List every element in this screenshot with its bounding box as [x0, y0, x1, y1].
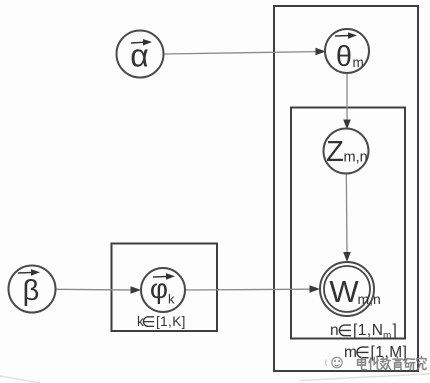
svg-text:n: n [330, 322, 339, 339]
wire z to w [345, 174, 348, 254]
plate M (outer document plate) [274, 6, 418, 371]
svg-text:W: W [329, 274, 359, 309]
svg-text:θ: θ [336, 41, 352, 73]
label n in [1,N_m] [330, 322, 397, 342]
wire theta to z [346, 73, 348, 121]
node z_mn [324, 129, 369, 174]
svg-text:m: m [383, 331, 391, 342]
node w_mn (observed, double circle) [320, 262, 381, 316]
svg-text:m,n: m,n [358, 291, 381, 307]
wire phi to w [185, 288, 312, 291]
svg-text:m: m [353, 55, 364, 70]
node beta [9, 266, 56, 313]
svg-text:[1,N: [1,N [353, 322, 383, 339]
node alpha [117, 31, 164, 78]
svg-text:]: ] [393, 322, 397, 339]
label m in [1,M] [344, 344, 407, 361]
svg-text:φ: φ [150, 273, 168, 304]
plate N (inner word plate) [291, 108, 405, 339]
scan shadow bottom-right [300, 374, 430, 381]
scan shadow bottom-left [0, 376, 40, 383]
node theta_m [325, 29, 369, 73]
node phi_k [141, 268, 185, 312]
arrowhead into w [343, 252, 351, 262]
arrowhead into phi [131, 286, 142, 293]
wire alpha to theta [164, 52, 318, 54]
arrowhead into w [310, 285, 321, 292]
svg-text:k: k [168, 292, 175, 307]
arrowhead into theta [316, 48, 327, 55]
svg-text:m: m [344, 344, 357, 361]
svg-text:Z: Z [326, 136, 344, 168]
svg-text:[1,K]: [1,K] [156, 314, 186, 329]
arrowhead into z [343, 120, 351, 130]
watermark text (CJK "dian hua jiao yu yan jiu" drawn as strokes) [358, 357, 427, 370]
plate K (topic plate) [112, 244, 218, 332]
watermark logo [325, 357, 342, 367]
svg-text:β: β [23, 275, 40, 307]
label k in [1,K] [137, 314, 186, 329]
wire beta to phi [56, 288, 133, 291]
svg-text:m,n: m,n [344, 150, 368, 166]
